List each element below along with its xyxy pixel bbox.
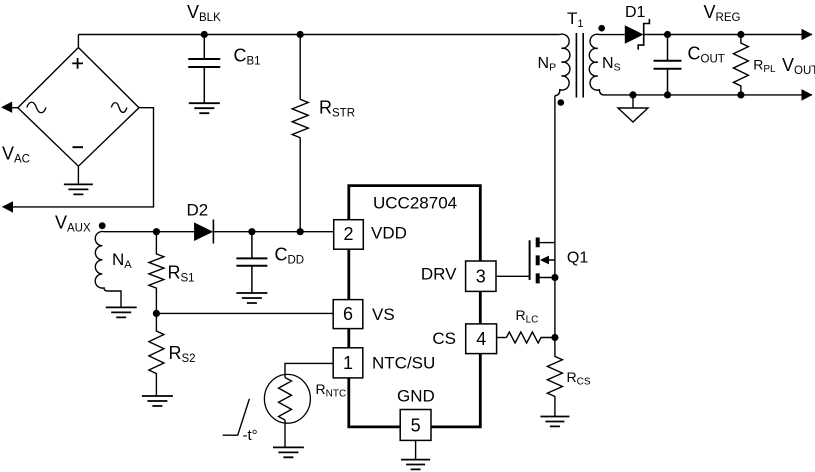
node RS1 top junction bbox=[153, 228, 160, 235]
ground (NTC) bbox=[273, 447, 304, 457]
bridge rectifier BR (diamond) bbox=[18, 48, 139, 167]
op IC U1 UCC28704 outline bbox=[349, 186, 481, 427]
transformer T1 primary winding NP bbox=[555, 34, 570, 95]
wire VAUX to D2 bbox=[104, 231, 194, 233]
arrow AC line1 bbox=[1, 102, 12, 113]
arrow VREG out bbox=[802, 29, 813, 41]
svg-text:NP: NP bbox=[538, 55, 557, 74]
transistor Q1 source tap bbox=[539, 260, 555, 278]
svg-text:NS: NS bbox=[602, 55, 621, 74]
node source junction bbox=[551, 274, 558, 281]
ground (bridge) bbox=[64, 184, 93, 194]
capacitor CDD bbox=[236, 232, 267, 293]
svg-text:VBLK: VBLK bbox=[187, 2, 221, 24]
ground (RCS) bbox=[540, 417, 569, 427]
svg-text:-t°: -t° bbox=[243, 427, 258, 444]
node COUT top junction bbox=[664, 31, 671, 38]
svg-text:D1: D1 bbox=[625, 4, 646, 21]
svg-text:CB1: CB1 bbox=[234, 46, 261, 68]
svg-text:RPL: RPL bbox=[753, 56, 776, 75]
node VS junction bbox=[153, 310, 160, 317]
svg-text:3: 3 bbox=[476, 267, 486, 287]
arrow AC line2 bbox=[2, 201, 13, 212]
thermistor RNTC zigzag bbox=[279, 378, 292, 421]
svg-text:CDD: CDD bbox=[275, 245, 305, 267]
wire: bridge bottom vertex to ground bbox=[77, 166, 79, 184]
ground (RS2) bbox=[142, 396, 173, 406]
svg-text:NA: NA bbox=[112, 250, 132, 271]
svg-text:T1: T1 bbox=[567, 9, 584, 30]
svg-text:2: 2 bbox=[343, 224, 353, 244]
transistor Q1 body arrow bbox=[540, 256, 549, 265]
transistor Q1 drain tap bbox=[539, 242, 555, 244]
svg-text:4: 4 bbox=[476, 329, 486, 349]
node CDD junction bbox=[248, 228, 255, 235]
svg-text:VAC: VAC bbox=[2, 144, 30, 166]
polarity dot NA bbox=[99, 222, 106, 229]
svg-text:RNTC: RNTC bbox=[316, 381, 347, 400]
svg-text:6: 6 bbox=[343, 304, 353, 324]
node VBLK junction dot bbox=[201, 31, 208, 38]
svg-text:COUT: COUT bbox=[688, 44, 725, 66]
thermistor RNTC circle bbox=[264, 374, 310, 423]
svg-text:UCC28704: UCC28704 bbox=[373, 194, 457, 213]
resistor RLC bbox=[506, 332, 555, 343]
wire NS bottom rail bbox=[604, 94, 812, 96]
svg-text:1: 1 bbox=[343, 353, 353, 373]
resistor RS1 bbox=[149, 232, 164, 314]
svg-text:CS: CS bbox=[432, 329, 456, 348]
node COUT bottom junction bbox=[664, 91, 671, 98]
plus sign bbox=[72, 58, 83, 69]
resistor RSTR bbox=[292, 35, 308, 232]
node RPL bottom junction bbox=[737, 91, 744, 98]
svg-text:RLC: RLC bbox=[516, 307, 539, 326]
minus sign bbox=[73, 146, 84, 148]
wire NS top to D1 bbox=[599, 34, 624, 36]
resistor RCS bbox=[547, 338, 562, 417]
wire pin3 DRV to gate bbox=[496, 275, 530, 277]
wire D1 to VREG rail bbox=[644, 34, 812, 36]
resistor RS2 bbox=[149, 313, 164, 396]
wire NTC top to pin1 bbox=[285, 363, 333, 377]
svg-text:5: 5 bbox=[411, 416, 421, 436]
svg-text:NTC/SU: NTC/SU bbox=[372, 354, 435, 373]
wire: bridge left vertex to AC arrow bbox=[10, 107, 18, 109]
capacitor COUT bbox=[654, 35, 682, 95]
svg-text:Q1: Q1 bbox=[567, 250, 588, 267]
polarity dot NS bbox=[598, 25, 605, 32]
ground (CDD) bbox=[236, 293, 267, 303]
node RPL top junction bbox=[737, 31, 744, 38]
node RSTR bottom junction bbox=[297, 228, 304, 235]
svg-text:GND: GND bbox=[397, 387, 435, 406]
svg-text:RS2: RS2 bbox=[169, 343, 196, 365]
pin 1 box bbox=[333, 348, 363, 378]
svg-text:VDD: VDD bbox=[371, 224, 407, 243]
diode D2 bbox=[194, 222, 213, 241]
ground (CB1) bbox=[189, 103, 220, 113]
pin 6 box bbox=[333, 300, 363, 329]
svg-text:RS1: RS1 bbox=[168, 263, 195, 285]
pin 2 box bbox=[334, 220, 364, 250]
wire VS to pin6 bbox=[156, 312, 333, 314]
transformer core bbox=[576, 33, 583, 98]
polarity dot NP bbox=[558, 99, 565, 106]
ground (NA) bbox=[106, 307, 137, 317]
ground (pin5) bbox=[401, 460, 430, 470]
wire drain up to transformer bbox=[554, 96, 556, 243]
wire pin4 CS to RLC bbox=[497, 337, 507, 339]
pin 5 box bbox=[400, 410, 431, 441]
transformer T1 secondary winding NS bbox=[589, 34, 604, 95]
svg-text:VAUX: VAUX bbox=[55, 213, 91, 235]
wire D2 to pin2 bbox=[213, 231, 333, 233]
transistor Q1 body line bbox=[548, 243, 555, 260]
transistor Q1 gate line bbox=[529, 240, 531, 280]
wire top vertex to top rail bbox=[77, 35, 79, 48]
pin 4 box bbox=[466, 324, 497, 354]
inductor NA (aux winding) bbox=[95, 232, 121, 308]
resistor RPL bbox=[733, 35, 748, 95]
pin 3 box bbox=[466, 261, 496, 291]
wire: bridge right vertex to lower AC line bbox=[11, 108, 154, 207]
svg-text:DRV: DRV bbox=[421, 265, 457, 284]
svg-text:RCS: RCS bbox=[567, 369, 591, 388]
wire pin5 to ground bbox=[415, 440, 417, 459]
AC squiggle left bbox=[27, 102, 46, 113]
AC squiggle right bbox=[111, 103, 127, 113]
capacitor CB1 bbox=[188, 35, 220, 104]
wire: top rail VBLK bbox=[78, 34, 559, 36]
svg-text:VOUT: VOUT bbox=[782, 55, 815, 77]
arrow VOUT out bbox=[802, 89, 813, 101]
transistor Q1 channel bars bbox=[536, 238, 540, 284]
svg-text:VREG: VREG bbox=[704, 2, 741, 24]
wire source down to RLC node bbox=[554, 278, 556, 338]
node sec gnd junction bbox=[629, 91, 636, 98]
node RSTR top junction dot bbox=[297, 31, 304, 38]
wire NTC bottom to ground bbox=[284, 420, 286, 447]
ground (secondary, open triangle) bbox=[632, 95, 634, 108]
svg-text:D2: D2 bbox=[187, 201, 209, 220]
node RLC junction bbox=[551, 334, 558, 341]
svg-text:RSTR: RSTR bbox=[319, 98, 355, 120]
diode D1 (schottky) bbox=[625, 25, 644, 44]
NTC temperature symbol -t bbox=[223, 399, 250, 435]
svg-text:VS: VS bbox=[372, 305, 395, 324]
